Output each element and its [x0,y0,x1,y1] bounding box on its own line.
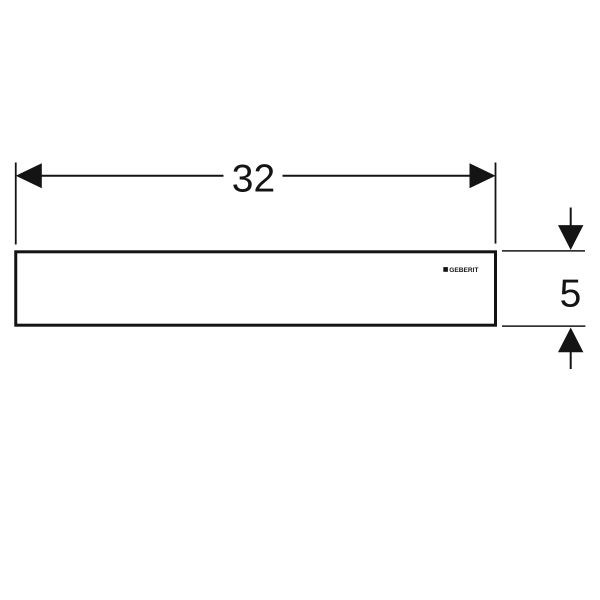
svg-text:GEBERIT: GEBERIT [449,267,478,274]
dimension line 32 right segment [283,175,471,177]
GEBERIT logo square [443,267,448,272]
dimension line 32 left segment [41,175,224,177]
arrowhead left (dimension 32) [16,163,42,188]
extension line left (dimension 32) [15,163,17,245]
rectangle plate outline [16,252,496,325]
down arrow stem (dimension 5) [570,208,572,227]
up arrowhead (dimension 5) [558,328,583,353]
svg-text:32: 32 [232,158,275,201]
extension line right (dimension 32) [495,163,497,244]
up arrow stem (dimension 5) [570,352,572,369]
extension line top (dimension 5) [502,250,585,252]
svg-text:5: 5 [560,273,582,316]
down arrowhead (dimension 5) [558,225,583,250]
extension line bottom (dimension 5) [502,325,585,327]
arrowhead right (dimension 32) [470,163,496,188]
